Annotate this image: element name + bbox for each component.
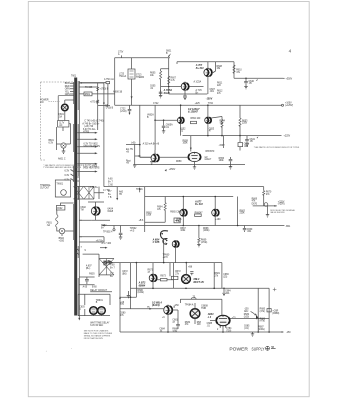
V652 plate leads [181,105,208,117]
svg-text:7 B: 7 B [108,197,112,199]
R653 resistor [239,118,241,126]
svg-text:15k: 15k [217,68,222,70]
cathode leads [181,124,208,136]
heater tap arrow row4 [79,152,95,154]
transformer T601 core [74,78,77,316]
left drop arrow [116,198,118,200]
svg-text:9: 9 [85,250,87,252]
delay label underline [90,291,112,293]
svg-text:R 7: R 7 [108,191,112,193]
svg-text:.01: .01 [166,127,170,129]
V662 tube lower-left [151,154,159,162]
CRT winding X [99,259,114,275]
heater tap arrow row1 [79,132,95,134]
svg-text:100k: 100k [146,215,152,217]
svg-text:+350V: +350V [169,169,176,171]
tube ground V662A [150,162,153,164]
stub mid wire [135,155,139,157]
left drop wire [116,187,118,199]
heater tap arrow row3 [79,146,95,148]
B602 marks [61,230,64,233]
svg-text:CKT: CKT [103,265,108,267]
R670 resistor [263,191,265,196]
svg-text:TK 605: TK 605 [85,87,93,89]
svg-text:+6: +6 [162,317,165,319]
primary shield dashed line [41,82,74,160]
C640 arrow [256,79,258,81]
line connector box [58,121,69,128]
TP arrow [139,187,141,189]
output row s3 [253,205,277,207]
delay relay contact K2 [98,307,106,315]
svg-text:& 12BH7: & 12BH7 [188,111,199,114]
svg-text:2: 2 [217,329,219,331]
V604 cathode lead [222,326,224,332]
row left drop [179,299,181,303]
svg-text:220: 220 [217,85,222,87]
svg-text:+: + [46,351,48,353]
svg-text:+(70) B+: +(70) B+ [90,101,99,103]
svg-text:(6AX4): (6AX4) [152,304,160,307]
thermal cutout box [55,180,70,197]
bottom rail dots [183,225,185,227]
C641 cap [245,136,249,144]
svg-text:+B6: +B6 [188,267,193,269]
series tube V604 (6080) [216,315,230,325]
svg-text:+(700) B: +(700) B [100,88,109,90]
bias box top [83,254,99,277]
svg-text:220k: 220k [240,213,246,215]
C684 ground [222,293,225,295]
fuse bus vertical [97,83,99,130]
R655 vertical [223,136,225,148]
svg-text:100k: 100k [180,230,186,232]
R601 dropper box [84,92,92,96]
stage2 left vertical [139,105,141,157]
delay bottom terminal [78,316,80,319]
svg-text:47k: 47k [185,324,190,326]
C667 ground [119,237,122,239]
stage3 left vertical [144,187,146,232]
svg-text:.001: .001 [225,293,230,295]
svg-text:A 750 mA: A 750 mA [104,78,114,81]
svg-text:27k: 27k [120,315,125,317]
row arrow s5 [149,308,152,310]
C606 cap [159,90,163,96]
crossover winding X2 [84,187,94,200]
svg-text:AC: AC [59,124,63,127]
small ground s4 left [127,291,130,298]
R652 box [191,121,197,123]
heater tap arrow row6 [79,171,95,173]
rail chevron b [109,261,112,265]
stage2 inner vertical [154,105,156,150]
svg-text:(100k): (100k) [203,230,210,232]
grid wire lower tube [140,156,188,158]
winding frame lines [74,187,94,200]
V606B plate lead [214,197,216,210]
R669b zigzag [198,238,200,243]
grid junction dot [163,119,165,121]
svg-text:ADJ: ADJ [244,310,248,313]
svg-text:47k: 47k [252,201,257,203]
svg-text:47: 47 [172,322,175,324]
bottom rail dots [167,331,169,333]
right-side heater bus vertical [78,81,80,316]
svg-text:+350V: +350V [286,78,293,80]
svg-text:TP684 A: TP684 A [185,303,194,306]
svg-text:B+ 010: B+ 010 [196,67,204,70]
svg-text:.001: .001 [247,231,252,233]
heater loop wires [57,124,71,144]
delay box bottom [78,309,110,316]
cap column vertical [107,84,109,105]
rail terminal circle [113,226,115,229]
R607 resistor [168,76,170,84]
svg-text:4: 4 [79,309,81,311]
rail C to +350V [234,77,283,79]
V605B ground [183,97,187,99]
dashed stub arrow [100,247,106,249]
svg-text:L 2: L 2 [208,316,212,319]
squiggle R615 [97,100,99,104]
loop dots [130,296,132,298]
svg-text:TK601: TK601 [56,184,63,186]
tube V680 [164,306,173,315]
tap pin ticks [77,133,79,181]
svg-text:(470k): (470k) [201,242,208,244]
svg-text:12AU7: 12AU7 [204,158,212,161]
R605 resistor [160,71,162,79]
C657 cap [229,157,233,165]
feedback row wire [180,298,222,300]
svg-text:4: 4 [289,49,292,54]
heater tap arrow row2 [79,138,95,140]
svg-text:6.3V: 6.3V [49,143,54,145]
junction dot grid [168,86,170,88]
svg-text:.01: .01 [207,325,211,327]
svg-text:C 67B: C 67B [153,241,160,244]
svg-text:A 60: A 60 [83,285,88,288]
svg-text:A601 C: A601 C [58,158,66,161]
svg-text:100k: 100k [219,160,225,162]
R689 box [267,309,271,312]
left row wire [126,144,140,146]
C640 cap [244,78,248,86]
hook arrowhead [165,239,168,241]
fuse loop wavy winding [56,215,58,228]
svg-text:ON: ON [40,102,44,104]
svg-text:T601: T601 [71,76,77,78]
s4 bottom dots [152,288,154,290]
V662 plate wire [140,150,155,157]
V605B cathode [183,91,187,96]
svg-text:+C60: +C60 [59,240,65,242]
svg-text:C722: C722 [153,103,159,105]
svg-text:27k: 27k [266,194,271,196]
svg-text:.05: .05 [249,83,253,85]
C684 stem [223,288,225,292]
svg-text:SUPPLY: SUPPLY [252,346,265,351]
svg-text:.001: .001 [210,91,215,93]
svg-text:+B: +B [126,151,129,153]
svg-text:.05: .05 [250,141,254,143]
tube V606A [180,209,187,216]
title circled plus [266,346,270,350]
svg-text:B: B [96,302,98,304]
V684 leads [194,303,196,324]
HV rect top lead [185,263,187,275]
ExtHV stub vertical [134,144,136,165]
svg-text:6BW4: 6BW4 [139,284,146,287]
svg-text:B+ 010: B+ 010 [195,203,203,206]
V606A plate lead [182,197,184,210]
stage5 upper-left loop [120,263,136,332]
V604 internals [219,315,227,327]
svg-text:(+125V): (+125V) [285,105,293,107]
rect V602 circle [91,207,99,215]
C656 cap ground [229,165,232,169]
svg-text:47k: 47k [217,93,222,95]
svg-text:47k: 47k [157,209,162,211]
svg-text:(+B) 740: (+B) 740 [84,126,93,128]
svg-text:6AU6: 6AU6 [164,92,171,95]
svg-text:TMB: TMB [201,308,206,310]
bias caps wires [79,277,94,285]
+100V terminal [282,104,284,106]
R663 vertical [237,197,239,226]
delay relay contact K1 [90,307,98,315]
rail left arrowhead [102,225,105,227]
B601 ground [62,148,66,153]
grid box s3 [195,214,202,216]
svg-text:.5A: .5A [59,116,63,119]
core tap diagonals [71,170,74,181]
C722 arrow [129,113,131,115]
svg-text:B+ 7: B+ 7 [108,182,113,184]
s3 ground stem [267,206,269,215]
R654 resistor [221,120,223,128]
primary tap leads [70,83,74,94]
svg-text:+B: +B [126,163,129,165]
svg-text:T702: T702 [208,103,214,105]
svg-text:HTRS: HTRS [83,131,90,133]
R608 drop [212,62,216,74]
rect tube V684 [190,309,200,319]
C654 vertical [239,136,241,151]
tube V672 [149,274,157,282]
output row s5 [230,317,269,319]
C606 ground [159,96,162,98]
svg-text:B+ 7: B+ 7 [110,268,115,270]
svg-text:47: 47 [148,272,151,274]
R669b vertical [198,226,200,239]
svg-text:47k: 47k [236,72,241,74]
stub ground [133,165,136,167]
svg-text:POWER: POWER [229,346,248,351]
row arrowheads [274,205,276,207]
C667 drop [119,226,123,237]
C665A ground [162,131,165,133]
TP arrow stem [139,190,141,193]
svg-text:27k: 27k [175,273,180,275]
R685 vertical [257,288,259,332]
HV rect X mark [183,276,189,281]
R672 box [171,276,178,279]
175V lead [121,55,123,57]
svg-text:.005: .005 [244,146,249,148]
svg-text:(.01): (.01) [244,328,249,330]
SW601 cross marks [63,106,67,110]
svg-text:.01: .01 [150,88,154,90]
bus junction dots [207,135,209,137]
V602 cathode lead [92,216,110,221]
svg-text:A 60: A 60 [110,264,115,267]
svg-text:R659: R659 [176,161,182,163]
C722 cap [128,105,132,113]
svg-text:R652 100: R652 100 [191,118,202,120]
junction dot left vert [139,144,141,146]
svg-text:(700) B: (700) B [106,108,114,110]
R673 box [160,279,167,281]
crossover winding X1 [74,187,84,200]
rail B right drop [233,62,235,79]
svg-text:(25): (25) [223,276,227,278]
R673 wire [157,279,173,281]
svg-text:*: * [71,348,72,350]
svg-text:6.3V 60 SEC: 6.3V 60 SEC [90,325,103,327]
svg-text:(R689): (R689) [272,313,279,315]
hook feed vertical [163,240,165,262]
rail chevron a [104,261,107,265]
svg-text:FROM THAT SHOWN: FROM THAT SHOWN [84,337,104,340]
svg-text:A 600 1B: A 600 1B [113,91,123,94]
HV cap marks [190,272,193,276]
indicator B602 [59,228,65,234]
V605B grid wire [186,86,204,88]
neon lower lead [175,248,177,263]
tube V606B [212,209,219,216]
V684 X mark [192,311,198,317]
svg-text:6CE5: 6CE5 [108,211,114,213]
svg-text:.6A: .6A [47,224,51,227]
V604 grid lead [210,320,216,322]
C640 junction dot [245,78,247,80]
tube V605B [181,83,189,91]
svg-text:ORN: ORN [65,89,70,91]
bias row wires [79,220,104,242]
svg-text:(+25V): (+25V) [278,204,285,206]
R672 vertical [173,263,175,289]
R653 vertical [239,105,241,135]
svg-text:100k: 100k [183,143,189,145]
HV rect tube V [182,275,191,284]
svg-text:TP B02 4: TP B02 4 [103,232,113,234]
R669b ground [197,245,200,247]
C681 cap [173,310,180,329]
R654 top wire [211,117,222,136]
thermal cutout contact [61,190,67,196]
s3 ground [266,215,269,217]
svg-text:R665 C665: R665 C665 [170,211,182,213]
svg-text:470: 470 [211,151,216,153]
transformer left winding texture [73,82,75,240]
svg-text:770: 770 [120,304,125,306]
box inner mark [175,219,179,221]
svg-text:TYPES AND EARLIER VALUES OF PA: TYPES AND EARLIER VALUES OF PARTS [43,166,81,169]
rail B [177,61,234,63]
R669b stem [198,243,200,245]
svg-text:47: 47 [209,131,212,133]
ground below rail [251,332,254,336]
K1 marks [92,309,96,312]
svg-text:(L722): (L722) [120,111,127,113]
tube V652B [205,117,211,123]
V662B cathode [194,162,196,165]
rail terminal arrow [281,331,284,333]
K2 marks [100,309,104,312]
R670 vertical [263,187,265,206]
delay box [78,294,110,315]
svg-text:-150V: -150V [206,98,213,101]
svg-text:A 4.7 400: A 4.7 400 [102,242,112,245]
svg-text:+225: +225 [195,103,201,105]
svg-text:A 1C5A: A 1C5A [194,81,202,84]
+350V terminal [283,77,285,79]
V605A plate lead [207,62,209,69]
left feed bus [103,83,105,187]
+350V arrowhead [165,169,167,171]
relay box K601 [128,69,135,79]
row resistor bump [191,298,196,299]
V662B internals [191,152,197,158]
plate dots s3 [183,196,185,198]
cathode row wire [169,93,208,95]
pilot lamp B601 [61,143,66,148]
svg-text:B+: B+ [110,276,114,278]
svg-text:74k: 74k [220,123,225,125]
svg-text:RECT HV: RECT HV [194,281,205,284]
plate junction dots [180,104,182,106]
cathode drops s3 [183,216,215,225]
stage3 top rail [104,186,264,188]
right verticals s4 [214,263,222,289]
svg-text:(B+): (B+) [86,268,91,270]
B602 wires [62,231,74,236]
stage4 bottom rail [131,287,270,289]
svg-text:+160: +160 [215,219,221,221]
s5 row dots [257,318,259,320]
svg-text:4.7k: 4.7k [171,80,176,82]
V680 lower lead [167,315,169,333]
junction cross mark [273,288,277,292]
rail A [115,57,170,59]
R610 resistor [233,65,235,73]
svg-text:C650: C650 [105,261,111,263]
svg-text:(47k): (47k) [260,321,265,323]
ADJ arrow [251,312,257,316]
arrow on wire [131,96,133,99]
V604 crescents [216,317,217,323]
svg-text:BRN: BRN [65,83,70,85]
lower tube V662B [188,152,201,161]
svg-text:+100V: +100V [285,103,292,105]
transformer right winding texture [77,81,79,316]
grid feed arrow [190,148,192,150]
svg-text:D670: D670 [252,204,258,206]
svg-text:CUTOUT: CUTOUT [40,187,50,189]
svg-text:F602: F602 [57,208,63,210]
